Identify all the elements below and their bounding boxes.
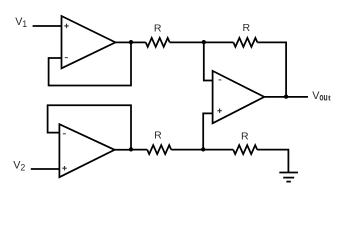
U2 inverting input marker (-) <box>63 133 66 135</box>
wire J5 to R4 <box>203 149 233 151</box>
junction J2 <box>202 40 206 44</box>
op-amp U2 <box>59 124 114 177</box>
U2 noninverting input marker (+) <box>62 166 66 170</box>
U3 inverting input marker (-) <box>218 79 221 81</box>
wire J4 to R3 <box>131 149 147 151</box>
wire R2 to output node J3 <box>257 42 286 97</box>
wire R1 to node J2 <box>170 41 204 43</box>
node V2 (input label) <box>13 160 25 173</box>
wire U2 output to node J4 <box>115 149 131 151</box>
ground <box>279 173 298 182</box>
svg-text:R: R <box>154 130 162 142</box>
wire V2 to U2 noninverting input <box>31 168 60 170</box>
junction J1 (U1 output node) <box>129 40 133 44</box>
label R2 value <box>243 22 251 34</box>
label R4 value <box>241 131 249 143</box>
wire U3 output to Vout <box>264 96 308 98</box>
svg-text:t: t <box>328 94 331 103</box>
label R1 value <box>154 23 162 35</box>
svg-text:1: 1 <box>22 19 27 29</box>
resistor R4 (to ground) <box>233 145 257 154</box>
wire J5 up to U3 noninverting input <box>203 113 212 149</box>
wire J2 to R2 <box>204 41 234 43</box>
wire R4 to ground <box>257 150 288 173</box>
junction J3 (output node) <box>284 94 288 98</box>
wire J1 to R1 <box>131 41 146 43</box>
junction J4 (U2 output node) <box>129 147 133 151</box>
U1 inverting input marker (-) <box>65 57 68 59</box>
U1 noninverting input marker (+) <box>64 24 68 28</box>
resistor R3 <box>147 145 171 154</box>
wire U1 feedback loop (output to inverting input) <box>49 42 131 85</box>
wire J2 down to U3 inverting input <box>204 42 213 80</box>
node V1 (input label) <box>15 16 27 29</box>
junction J5 <box>201 147 205 151</box>
wire U1 output to node J1 <box>115 41 131 43</box>
resistor R1 <box>146 38 170 47</box>
wire V1 to U1 noninverting input <box>33 25 62 27</box>
svg-text:R: R <box>241 131 249 143</box>
node Vout (output label) <box>312 90 331 104</box>
svg-text:R: R <box>243 22 251 34</box>
wire R3 to node J5 <box>171 149 203 151</box>
svg-text:2: 2 <box>20 162 25 172</box>
op-amp U3 <box>213 71 265 123</box>
resistor R2 (feedback) <box>233 38 257 47</box>
svg-text:R: R <box>154 23 162 35</box>
wire U2 feedback loop (output to inverting input) <box>48 105 131 149</box>
U3 noninverting input marker (+) <box>217 109 221 113</box>
label R3 value <box>154 130 162 142</box>
svg-text:ou: ou <box>319 93 327 104</box>
op-amp U1 <box>62 16 116 68</box>
